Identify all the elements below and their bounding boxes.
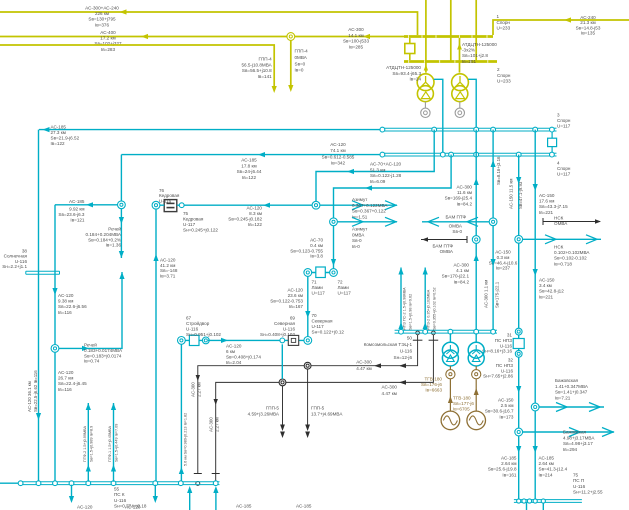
svg-text:31: 31 bbox=[507, 333, 513, 338]
wire Rechey lower link bbox=[59, 272, 122, 348]
node L1 493 bbox=[491, 127, 496, 132]
arrow on L3 flow left bbox=[347, 169, 354, 174]
arrow down V2 mid bbox=[533, 269, 538, 276]
svg-text:Sв=0.245-j0.182: Sв=0.245-j0.182 bbox=[228, 217, 262, 222]
svg-text:Iв=6705: Iв=6705 bbox=[453, 407, 470, 412]
svg-text:Речей: Речей bbox=[84, 342, 97, 348]
svg-text:ТГВ-180: ТГВ-180 bbox=[424, 377, 442, 382]
svg-text:Sв=130+j795: Sв=130+j795 bbox=[88, 17, 116, 22]
svg-text:U-116: U-116 bbox=[400, 349, 413, 354]
svg-text:Азимут: Азимут bbox=[352, 227, 368, 232]
wire x333 ring to Lami bbox=[333, 226, 335, 269]
svg-text:АС-185: АС-185 bbox=[539, 456, 555, 461]
arrow down on 36.1km line bbox=[36, 413, 41, 420]
svg-text:51.3 км: 51.3 км bbox=[370, 167, 385, 172]
node ring Stroydvor right bbox=[202, 337, 209, 344]
arrow H1 left b bbox=[399, 363, 406, 368]
svg-text:U-116: U-116 bbox=[500, 343, 513, 348]
arrow TEC stub2 top bbox=[423, 268, 428, 275]
svg-text:4: 4 bbox=[557, 161, 560, 166]
svg-text:Sв=0.102-0.102: Sв=0.102-0.102 bbox=[554, 256, 587, 261]
svg-text:U-117: U-117 bbox=[183, 222, 196, 227]
wire feeder V1 x518 from L2 to bottom-right bus bbox=[518, 155, 520, 500]
svg-text:4.47 км: 4.47 км bbox=[382, 391, 397, 396]
svg-text:Iв=122: Iв=122 bbox=[51, 141, 66, 146]
svg-text:Iв=24: Iв=24 bbox=[409, 77, 421, 82]
wire 220kV feeder vert 3 bbox=[475, 0, 477, 62]
svg-text:Sв=23.6-j6.3: Sв=23.6-j6.3 bbox=[58, 212, 85, 217]
node L2 transition bbox=[380, 152, 385, 157]
arrow AT1 up bbox=[424, 65, 428, 71]
svg-text:ОМВА: ОМВА bbox=[449, 224, 463, 229]
svg-text:17.6 км: 17.6 км bbox=[539, 199, 554, 204]
arrow TEC stub2 near bus bbox=[423, 322, 428, 329]
node L2 552 bbox=[550, 152, 555, 157]
svg-text:8.3 км: 8.3 км bbox=[249, 211, 262, 216]
node ring x476 BAM PTF bbox=[472, 236, 480, 244]
svg-text:Sн=0.951+j0.102: Sн=0.951+j0.102 bbox=[186, 332, 221, 337]
svg-text:5.6 км Sв=0.989-j0.213 Iв=1.82: 5.6 км Sв=0.989-j0.213 Iв=1.82 bbox=[184, 413, 188, 466]
svg-text:АС-300: АС-300 bbox=[191, 382, 196, 397]
substation Stroydvor symbol bbox=[189, 335, 199, 345]
svg-text:НСК: НСК bbox=[554, 216, 564, 221]
svg-text:НСК: НСК bbox=[554, 245, 564, 250]
arrow down V1 top bbox=[516, 177, 521, 184]
svg-text:Sв=0.183+j0.0174: Sв=0.183+j0.0174 bbox=[84, 353, 122, 358]
open circle x198 on bus bbox=[196, 481, 200, 485]
substation Solnechnaya tap bar bbox=[26, 270, 60, 272]
svg-text:Стройдвор: Стройдвор bbox=[186, 320, 210, 326]
svg-text:АС-185: АС-185 bbox=[501, 456, 517, 461]
wire NSK cyan feeder bbox=[523, 238, 602, 240]
node Severnaya left bbox=[280, 338, 285, 343]
svg-text:Iв=173: Iв=173 bbox=[499, 414, 514, 419]
svg-text:Sв=25.6-j19.8: Sв=25.6-j19.8 bbox=[488, 467, 517, 472]
chevron Azimut2 a bbox=[352, 217, 363, 226]
svg-text:Iв=122: Iв=122 bbox=[248, 222, 263, 227]
transformer TEC T2 star symbol bbox=[472, 345, 480, 354]
svg-text:Sв=1.5+j0.449 Iв=7.09: Sв=1.5+j0.449 Iв=7.09 bbox=[115, 424, 119, 462]
svg-text:Iв=0.74: Iв=0.74 bbox=[84, 359, 100, 364]
chevron BAM PTF b bbox=[467, 217, 478, 226]
svg-text:АС-150: АС-150 bbox=[539, 193, 555, 198]
svg-text:56.5-j10.8МВА: 56.5-j10.8МВА bbox=[241, 62, 272, 67]
svg-text:6 км: 6 км bbox=[226, 349, 235, 354]
node PSK 155 bbox=[153, 481, 158, 486]
svg-text:ПС К: ПС К bbox=[114, 492, 125, 497]
transformer TEC T1 star symbol bbox=[446, 345, 454, 354]
svg-text:Sв=169-j25.4: Sв=169-j25.4 bbox=[445, 196, 473, 201]
svg-text:Iв=214: Iв=214 bbox=[539, 472, 554, 477]
svg-text:Sв=1.5+j0.989 Iв=8.9: Sв=1.5+j0.989 Iв=8.9 bbox=[90, 426, 94, 462]
wire AT2 110kV tap bbox=[468, 79, 476, 128]
svg-text:Sв=47.1-j9.93: Sв=47.1-j9.93 bbox=[518, 181, 523, 209]
arrow up x476 upper bbox=[474, 178, 479, 185]
svg-text:ПС П: ПС П bbox=[573, 478, 584, 483]
wire TEC feeder stub 1 bbox=[400, 268, 402, 331]
wire TEC feeder stub 2 bbox=[424, 268, 426, 331]
node ring Kedrovaya 76 bbox=[152, 201, 160, 209]
svg-text:50: 50 bbox=[407, 336, 413, 341]
svg-text:АС-300: АС-300 bbox=[356, 360, 372, 365]
svg-text:АС-70+АС-120: АС-70+АС-120 bbox=[370, 162, 402, 167]
svg-text:Sв=0.367+0.122: Sв=0.367+0.122 bbox=[352, 209, 386, 214]
svg-text:2.27 км: 2.27 км bbox=[215, 417, 220, 432]
svg-text:70: 70 bbox=[312, 313, 318, 318]
svg-text:Iв=294: Iв=294 bbox=[563, 447, 578, 452]
wire AT2 to upper bus with up arrow bbox=[459, 38, 461, 73]
node PSK 71 bbox=[69, 481, 74, 486]
svg-text:Sн=11.2+j2.55: Sн=11.2+j2.55 bbox=[573, 490, 603, 495]
wire TEC transformer2 stub bbox=[475, 333, 477, 342]
transformer TEC T1 LV winding bbox=[442, 350, 458, 366]
svg-text:АС-120: АС-120 bbox=[226, 344, 242, 349]
svg-text:Sв=176-j6: Sв=176-j6 bbox=[421, 382, 442, 387]
svg-text:АС-300: АС-300 bbox=[348, 27, 364, 32]
svg-text:Sн=7.65+j2.86: Sн=7.65+j2.86 bbox=[483, 374, 513, 379]
svg-text:ОМВА: ОМВА bbox=[440, 249, 454, 254]
node PSK 113 bbox=[111, 481, 116, 486]
wire Stroydvor stubs bbox=[185, 339, 208, 341]
transformer AT2 tertiary winding bbox=[455, 108, 464, 117]
arrow down x333 bbox=[331, 259, 336, 266]
wire L2 corner drop to ring bbox=[120, 155, 122, 258]
busbar 220kV upper (1 Sporn) bbox=[404, 35, 493, 38]
node TEC bus 493 bbox=[491, 329, 496, 334]
node PSP 518 bbox=[517, 499, 521, 503]
svg-text:U=117: U=117 bbox=[557, 171, 571, 176]
svg-text:4.47 км: 4.47 км bbox=[356, 366, 371, 371]
svg-text:Sв=4.98+j3.17: Sв=4.98+j3.17 bbox=[563, 441, 593, 446]
junction ring TEC H1 bbox=[416, 331, 420, 335]
wire below-bus up feeder x216b bbox=[215, 490, 217, 510]
node ring tap GPP-4 on AC-400 bbox=[287, 33, 295, 41]
substation Severnaya symbol bbox=[288, 335, 298, 345]
arrow on AC-240 flow left bbox=[564, 17, 571, 22]
arrow down V2 top bbox=[533, 184, 538, 191]
node PS K transition bbox=[18, 481, 23, 486]
arrow GPP-5 load1 b bbox=[305, 432, 310, 439]
wire Lami row bbox=[308, 272, 334, 274]
svg-text:69: 69 bbox=[290, 316, 296, 321]
svg-text:Речей: Речей bbox=[108, 226, 121, 232]
busbar 220kV lower (2 Sporn) bbox=[404, 60, 497, 63]
transformer AT2 delta symbol bbox=[456, 92, 465, 99]
svg-text:74.1 км: 74.1 км bbox=[330, 148, 345, 153]
node PSP 524 bbox=[522, 499, 526, 503]
arrow on L1 flow left bbox=[43, 127, 50, 132]
svg-text:Iв=141: Iв=141 bbox=[258, 74, 273, 79]
svg-text:ГПП-5: ГПП-5 bbox=[311, 406, 325, 411]
svg-text:Северная: Северная bbox=[274, 321, 295, 326]
svg-text:72: 72 bbox=[338, 280, 344, 285]
svg-text:Sв=43.3-j7.15: Sв=43.3-j7.15 bbox=[539, 204, 568, 209]
wire BAM PTF line from ring 493 bbox=[422, 221, 489, 223]
svg-text:14.1 км: 14.1 км bbox=[348, 33, 363, 38]
svg-text:АС-185: АС-185 bbox=[241, 158, 257, 163]
wire TEC transformer1 stub bbox=[449, 333, 451, 342]
svg-text:Азимут: Азимут bbox=[352, 197, 368, 202]
svg-text:АС-185: АС-185 bbox=[236, 504, 252, 509]
arrow on AC-300+AC-240 flow left bbox=[120, 9, 127, 14]
node ring V1 NSK bbox=[515, 235, 523, 243]
node ring V1 PS NPZ top bbox=[515, 328, 522, 335]
svg-text:Sв=-148: Sв=-148 bbox=[160, 268, 178, 273]
wire x308 Lami to Severnaya bbox=[307, 277, 309, 338]
arrow black NSK right bbox=[595, 219, 601, 223]
node PSK 181 bbox=[178, 481, 183, 486]
arrow x189 up bbox=[187, 486, 192, 493]
svg-text:4.98+j3.17МВА: 4.98+j3.17МВА bbox=[563, 435, 595, 440]
svg-text:Iв=342: Iв=342 bbox=[331, 161, 346, 166]
arrow down x308 bbox=[305, 311, 310, 318]
node ring 316 Azimut bbox=[312, 201, 320, 209]
svg-text:Sв=177-j6: Sв=177-j6 bbox=[453, 401, 474, 406]
svg-text:Iв=3.71: Iв=3.71 bbox=[160, 273, 176, 278]
svg-text:27.3 км: 27.3 км bbox=[51, 130, 66, 135]
svg-text:Iв=0: Iв=0 bbox=[295, 68, 304, 73]
chevron Bazhovskaya2 b bbox=[602, 428, 613, 437]
svg-text:Северная: Северная bbox=[312, 319, 333, 324]
arrow H1 left a bbox=[374, 363, 381, 368]
svg-text:75: 75 bbox=[573, 473, 579, 478]
node ring V1 Bazhovskaya bbox=[515, 428, 523, 436]
svg-text:АС-185: АС-185 bbox=[296, 504, 312, 509]
svg-text:0.184+0.204МВА: 0.184+0.204МВА bbox=[86, 232, 122, 237]
arrow x71 down bbox=[69, 496, 74, 503]
svg-text:U=117: U=117 bbox=[557, 123, 571, 128]
node ring Rechey junction bbox=[118, 201, 126, 209]
svg-text:Iв=84.2: Iв=84.2 bbox=[454, 279, 470, 284]
svg-text:ОМВА: ОМВА bbox=[554, 221, 568, 226]
svg-text:Sв-0: Sв-0 bbox=[352, 238, 362, 243]
svg-text:Sв=0: Sв=0 bbox=[295, 61, 306, 66]
svg-text:Спорн: Спорн bbox=[497, 20, 511, 25]
svg-text:U-116: U-116 bbox=[186, 327, 199, 332]
node ring Stroydvor left bbox=[178, 337, 186, 345]
wire vertical AC-120 36.1km from L1 corner to bottom bus bbox=[38, 130, 40, 482]
transformer TEC T2 HV winding bbox=[468, 342, 484, 358]
node TEC bus 425 bbox=[423, 329, 428, 334]
svg-text:Sв=0.355+j0.102 Iв=0.52: Sв=0.355+j0.102 Iв=0.52 bbox=[433, 287, 437, 330]
node PSK 55 bbox=[53, 481, 58, 486]
svg-text:Iв=161: Iв=161 bbox=[502, 472, 517, 477]
svg-text:17.2 км: 17.2 км bbox=[100, 36, 115, 41]
wire black H2 TEC to GPP-5 bbox=[216, 335, 434, 473]
wire x282 Severnaya to H2 bbox=[281, 344, 283, 379]
node ring x493 NSK/BAM bbox=[489, 218, 497, 226]
node PSK 88 bbox=[86, 481, 91, 486]
wire below-bus down feeder x155 bbox=[154, 485, 156, 501]
svg-text:Sн=0.122+j0.12: Sн=0.122+j0.12 bbox=[312, 330, 345, 335]
svg-text:Iв=6.09: Iв=6.09 bbox=[370, 179, 386, 184]
node L2 443 bbox=[440, 152, 445, 157]
wire 110kV line L1 AC-185 27.3km thin part bbox=[39, 129, 382, 131]
svg-text:АС-70: АС-70 bbox=[310, 238, 323, 243]
svg-text:0.102+0.102МВА: 0.102+0.102МВА bbox=[554, 250, 590, 255]
chevron Azimut2 b bbox=[385, 217, 396, 226]
wire Bazhovskaya feeder 1 bbox=[539, 406, 604, 408]
svg-text:-3х2%: -3х2% bbox=[462, 48, 475, 53]
node ring 71 Lami bbox=[304, 269, 312, 277]
arrow on AC-400 flow left bbox=[141, 34, 148, 39]
svg-text:Iв=221: Iв=221 bbox=[539, 210, 554, 215]
svg-text:АС-300: АС-300 bbox=[382, 385, 398, 390]
transformer TEC T2 LV winding bbox=[468, 350, 484, 366]
node PSK 38 bbox=[36, 481, 41, 486]
bus gaps 220kV upper bbox=[408, 35, 410, 38]
svg-text:9.38 км: 9.38 км bbox=[58, 299, 73, 304]
arrow black BAM PTF left bbox=[422, 237, 428, 241]
arrow up x476 lower bbox=[474, 254, 479, 261]
wire PS K feeder to left edge bbox=[0, 482, 21, 484]
svg-text:Sв=0.123-0.755: Sв=0.123-0.755 bbox=[290, 248, 323, 253]
arrow up x156 bbox=[153, 254, 158, 261]
svg-text:АС-120: АС-120 bbox=[125, 505, 141, 510]
svg-text:Iв=116: Iв=116 bbox=[58, 387, 72, 392]
substation Lami symbol bbox=[316, 267, 326, 278]
node ring H1 tap bbox=[304, 362, 311, 369]
wire yellow line AC-300+AC-240 (220kV) with corner to bus bbox=[0, 12, 418, 35]
svg-text:Sв-0: Sв-0 bbox=[452, 229, 462, 234]
svg-text:АС-300 1.1 км: АС-300 1.1 км bbox=[484, 280, 489, 308]
arrow TEC stub1 near bus bbox=[398, 322, 403, 329]
node ring G2 bbox=[472, 370, 481, 379]
svg-text:Sв=1.5+j0.98 Iв=9.62: Sв=1.5+j0.98 Iв=9.62 bbox=[409, 294, 413, 330]
svg-text:2: 2 bbox=[497, 67, 500, 72]
arrow down Rechey upper 2 bbox=[119, 251, 124, 258]
node Kedrovaya right bbox=[179, 203, 184, 208]
tick black BAM PTF bbox=[466, 236, 468, 243]
arrow up G2 bbox=[474, 388, 479, 395]
svg-text:0.183+0.0174МВА: 0.183+0.0174МВА bbox=[84, 348, 123, 353]
arrow PTF-1 near bus bbox=[111, 465, 116, 472]
svg-text:71: 71 bbox=[312, 280, 318, 285]
arrow PTF-2 top bbox=[86, 403, 91, 410]
node PSK 216 bbox=[213, 481, 218, 486]
node ring H2 tap bbox=[279, 379, 286, 386]
wire 220kV feeder vert 1 (to AT1) bbox=[425, 0, 427, 73]
wire AC-185 9.92km row bbox=[55, 204, 120, 206]
node ring G1 bbox=[446, 370, 455, 379]
wire GPP-5 load 2 (4.59MVA) bbox=[282, 386, 284, 429]
svg-text:Sв=0.122-j1.28: Sв=0.122-j1.28 bbox=[370, 173, 402, 178]
svg-text:U=233: U=233 bbox=[497, 79, 511, 84]
svg-text:226 км: 226 км bbox=[95, 11, 109, 16]
arrow x216 up bbox=[213, 486, 218, 493]
svg-text:Sн=12-j6: Sн=12-j6 bbox=[394, 355, 413, 360]
svg-text:Iв=221: Iв=221 bbox=[539, 294, 554, 299]
svg-text:Sв=24-j6.44: Sв=24-j6.44 bbox=[237, 169, 262, 174]
arrow right on Rechey link bbox=[82, 346, 89, 351]
svg-text:23.6 км: 23.6 км bbox=[288, 293, 303, 298]
svg-text:Sв=22.4-j6.45: Sв=22.4-j6.45 bbox=[58, 381, 87, 386]
svg-text:55: 55 bbox=[114, 487, 120, 492]
chevron BAM PTF a bbox=[428, 217, 439, 226]
wire L3 from L1-434 down-left to ring 316 bbox=[316, 130, 434, 202]
wire x181 Stroydvor down to bottom bus bbox=[180, 344, 182, 481]
svg-text:АС-400: АС-400 bbox=[100, 30, 116, 35]
svg-text:ПС НПЗ: ПС НПЗ bbox=[496, 363, 514, 368]
svg-text:Sв=170-j22.1: Sв=170-j22.1 bbox=[442, 274, 470, 279]
arrow on 9.92km row flow left bbox=[86, 202, 93, 207]
node L2 451 bbox=[449, 152, 454, 157]
svg-text:Sн=0.245+j0.122: Sн=0.245+j0.122 bbox=[183, 228, 218, 233]
svg-text:2.64 км: 2.64 км bbox=[501, 461, 516, 466]
svg-text:АС-120: АС-120 bbox=[77, 505, 93, 510]
svg-text:4.1 км: 4.1 км bbox=[456, 268, 469, 273]
svg-text:2.5 км: 2.5 км bbox=[501, 403, 514, 408]
svg-text:0.367+0.122МВА: 0.367+0.122МВА bbox=[352, 203, 388, 208]
svg-text:U-116: U-116 bbox=[283, 327, 296, 332]
busbar 110kV lower 4 Sporn bbox=[382, 152, 552, 154]
busbar PS K bbox=[21, 481, 220, 483]
svg-text:АС-150: АС-150 bbox=[495, 250, 511, 255]
generator G1 bbox=[441, 411, 460, 430]
svg-text:АС-120: АС-120 bbox=[58, 293, 74, 298]
svg-text:0МВА: 0МВА bbox=[295, 55, 308, 60]
transformer AT2 secondary winding bbox=[452, 86, 468, 102]
wire feeder x493 to TEC bus end bbox=[492, 130, 494, 331]
svg-text:U-116: U-116 bbox=[573, 484, 586, 489]
svg-text:Iв=0.718: Iв=0.718 bbox=[554, 261, 572, 266]
svg-text:41.2 км: 41.2 км bbox=[160, 263, 175, 268]
svg-text:Sв=21.9-j6.52: Sв=21.9-j6.52 bbox=[51, 136, 80, 141]
transformer AT2 tertiary stub bbox=[459, 102, 461, 108]
arrow GPP-4 second feeder bbox=[288, 85, 293, 92]
svg-text:17.8 км: 17.8 км bbox=[241, 163, 256, 168]
transformer AT1 tertiary stub bbox=[424, 102, 426, 108]
arrow up x493 bbox=[491, 160, 496, 167]
node ring Severnaya right bbox=[304, 337, 312, 345]
svg-text:Sв=41.3-j12.4: Sв=41.3-j12.4 bbox=[539, 467, 568, 472]
wire 110kV line L2 AC-185 17.8km thin part bbox=[121, 154, 382, 156]
node L1 552 bbox=[550, 127, 555, 132]
tick H2 disconnector bbox=[429, 339, 439, 341]
wire below-bus down feeder x71 bbox=[71, 485, 73, 501]
wire 220kV feeder vert 2 bbox=[450, 0, 452, 62]
svg-text:U-116: U-116 bbox=[501, 368, 514, 373]
arrow on L3b flow left bbox=[365, 185, 372, 190]
busbar PS P bbox=[514, 499, 582, 501]
svg-text:Iв=122: Iв=122 bbox=[242, 175, 257, 180]
svg-text:Sв=175-j22.1: Sв=175-j22.1 bbox=[495, 281, 500, 308]
arrow PTF-2 near bus bbox=[86, 465, 91, 472]
svg-text:Бажовская: Бажовская bbox=[563, 430, 587, 435]
svg-text:АС-120: АС-120 bbox=[247, 206, 263, 211]
svg-text:U=117: U=117 bbox=[312, 290, 326, 295]
arrow black x216 down bbox=[214, 399, 218, 405]
arrow down x493 mid bbox=[491, 259, 496, 266]
wire Stroydvor-Severnaya row bbox=[208, 339, 304, 341]
tick x198 bottom bbox=[194, 473, 202, 475]
svg-text:Бажовская: Бажовская bbox=[555, 378, 579, 383]
transformer AT2 primary winding bbox=[452, 74, 469, 91]
svg-text:2.64 км: 2.64 км bbox=[539, 461, 554, 466]
tick black NSK bbox=[542, 218, 544, 225]
arrow up x181 bbox=[179, 467, 184, 474]
svg-text:Iв=167: Iв=167 bbox=[289, 304, 304, 309]
transformer TEC T2 delta symbol bbox=[472, 355, 480, 362]
wire yellow line AC-400 (220kV) bbox=[0, 36, 404, 38]
svg-text:АС-185: АС-185 bbox=[69, 199, 85, 204]
transformer AT1 tertiary winding bbox=[421, 108, 430, 117]
wire L3b from L2-451 down-left to ring 333 bbox=[334, 155, 452, 218]
node PSP 535 bbox=[533, 499, 537, 503]
svg-text:Iв=2.04: Iв=2.04 bbox=[226, 360, 242, 365]
svg-text:Sв=42.8-j12: Sв=42.8-j12 bbox=[539, 289, 564, 294]
svg-text:АТДЦТН-125000: АТДЦТН-125000 bbox=[386, 65, 421, 70]
